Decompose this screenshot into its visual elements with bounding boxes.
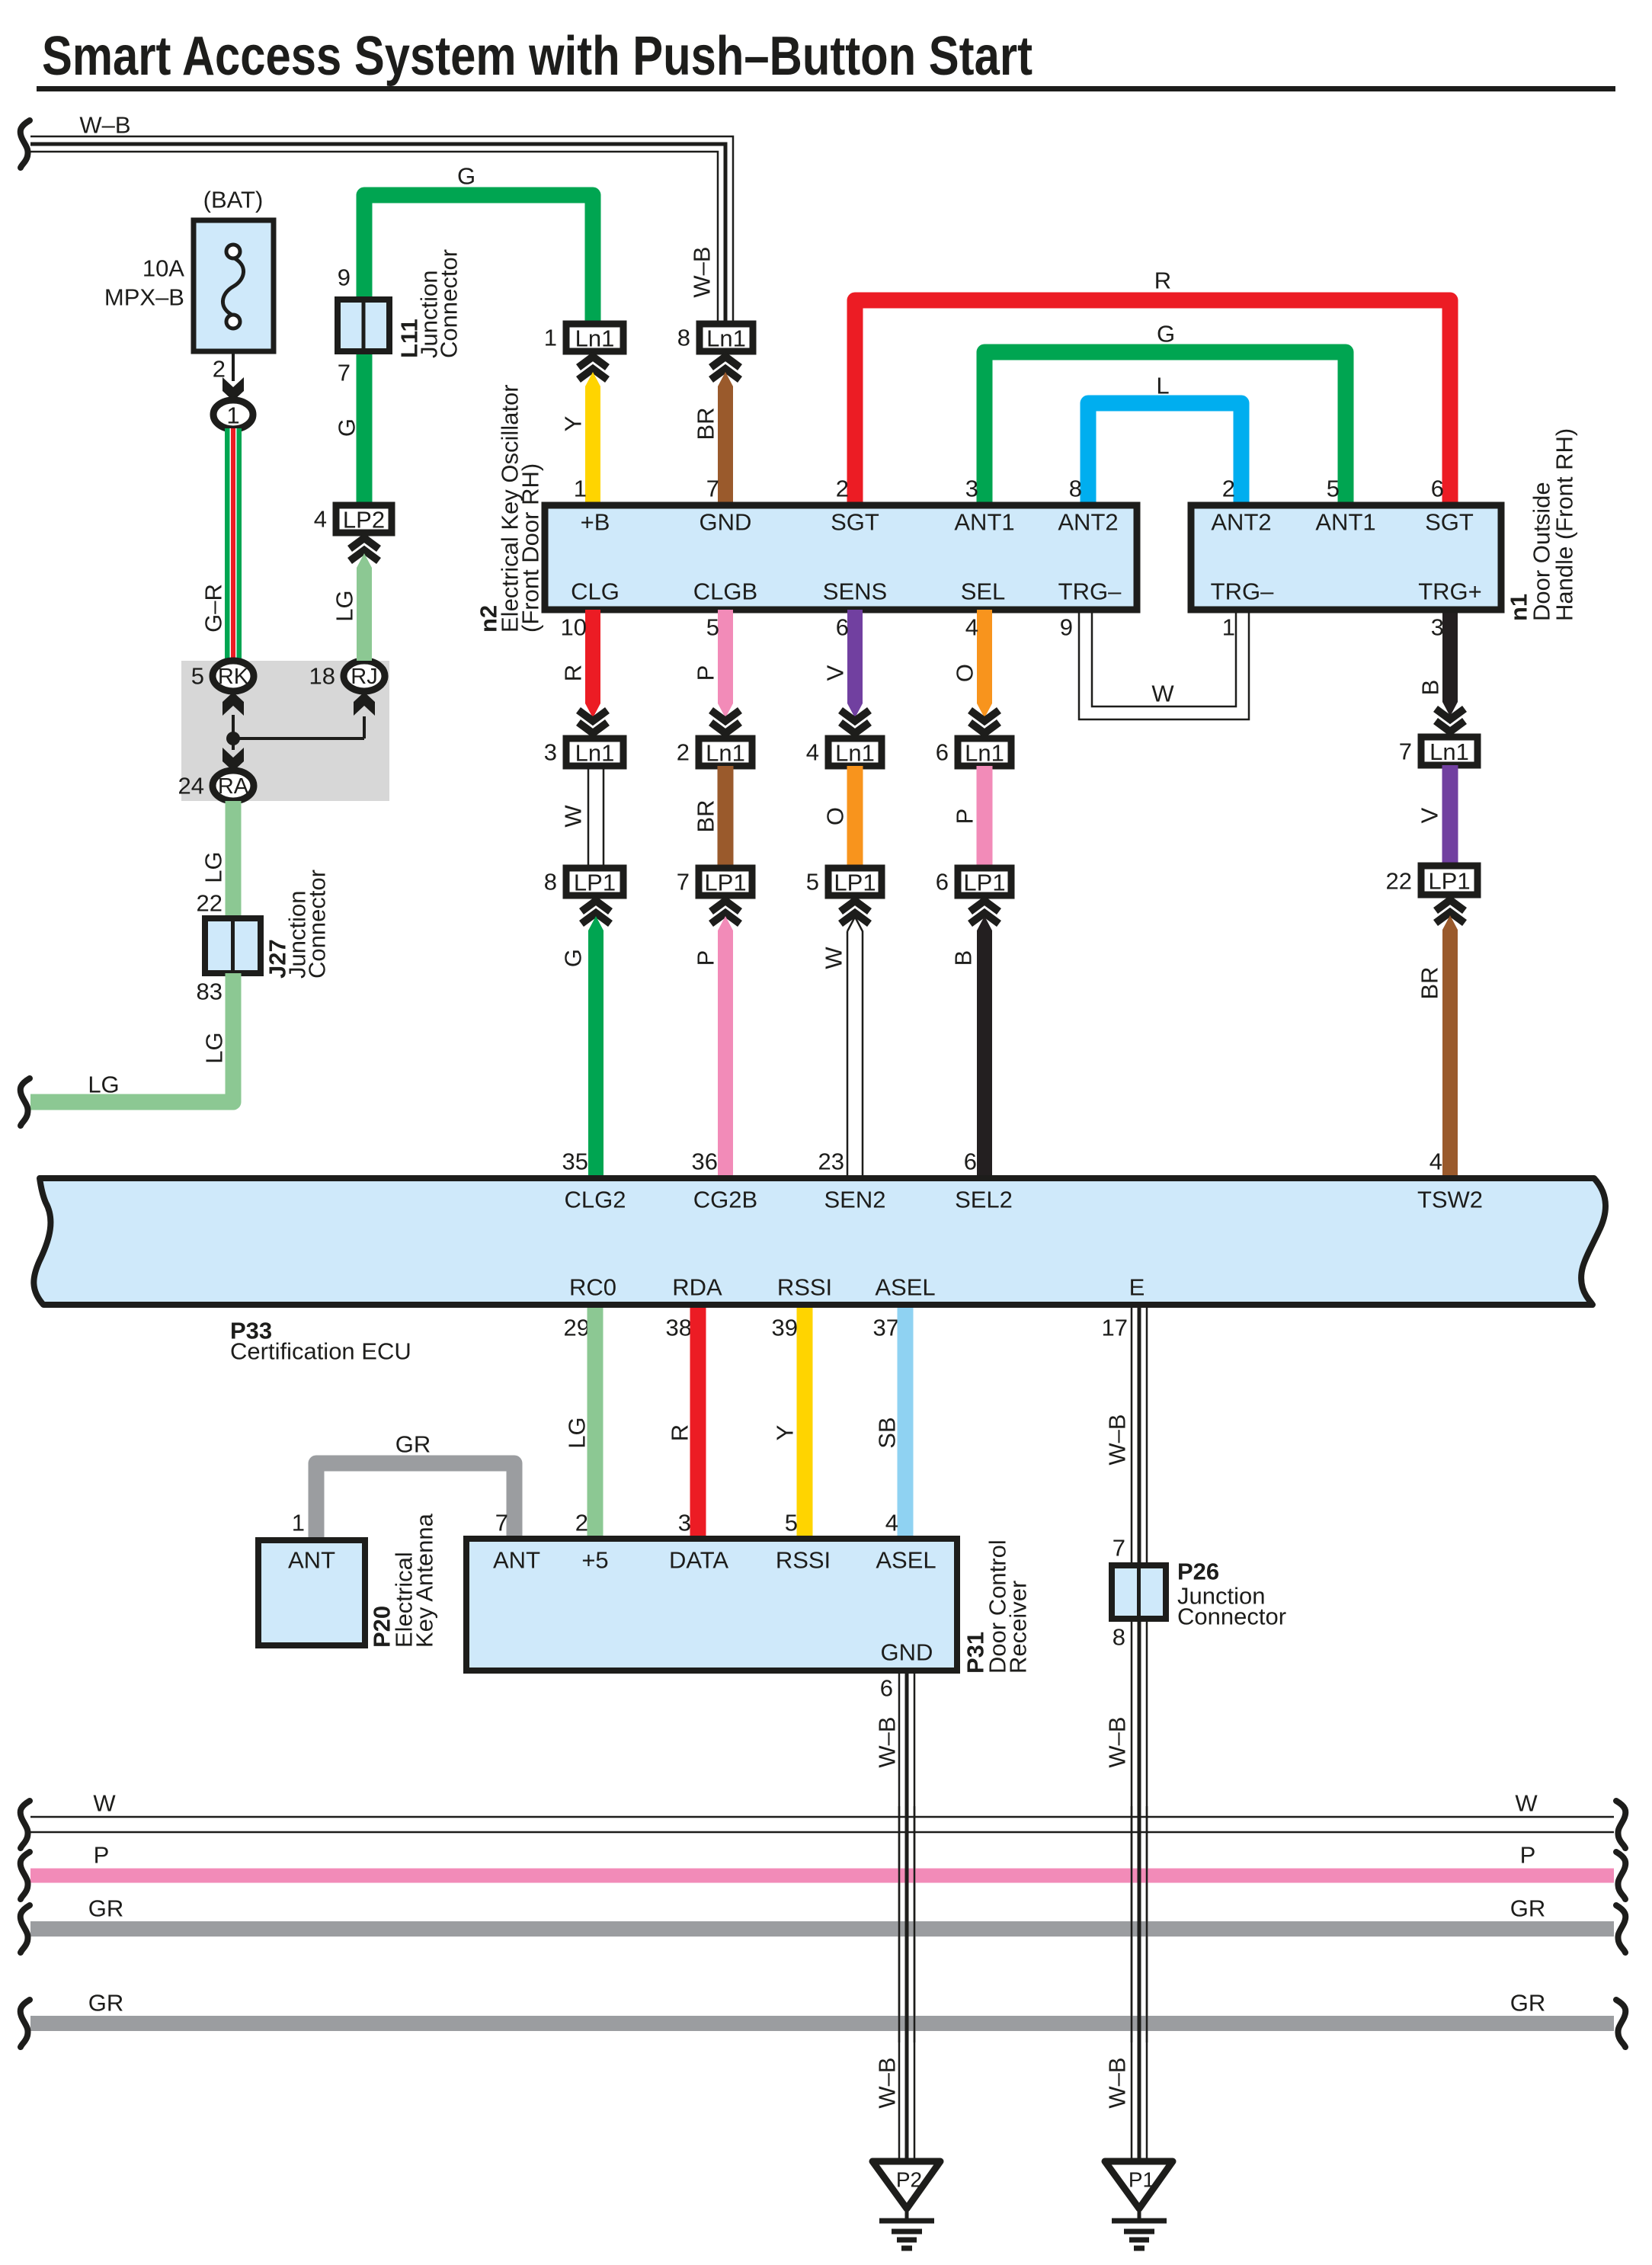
wire W-B ECU E to ground P1 [1132, 1308, 1147, 2163]
n2 top pin labels [581, 509, 1119, 536]
wire O n2 SEL down to Ln1 pin 6 [977, 610, 992, 718]
ground P1 [1105, 2161, 1173, 2248]
svg-text:5: 5 [191, 663, 204, 690]
arrow into RA [223, 748, 244, 771]
svg-text:RSSI: RSSI [777, 1274, 832, 1301]
wire R ECU RDA to P31 DATA [690, 1308, 706, 1539]
svg-text:LP2: LP2 [343, 507, 385, 533]
svg-text:LP1: LP1 [1428, 868, 1470, 895]
svg-text:L: L [1156, 373, 1169, 399]
svg-text:W–B: W–B [1104, 1716, 1131, 1767]
svg-text:36: 36 [692, 1149, 718, 1175]
svg-text:O: O [952, 664, 978, 682]
svg-text:SGT: SGT [1425, 509, 1474, 536]
wire L loop n2 ANT2 to n1 ANT2 [1088, 403, 1241, 505]
svg-text:W–B: W–B [874, 2057, 901, 2108]
svg-text:4: 4 [1429, 1149, 1442, 1175]
ECU box n2 Electrical Key Oscillator (Front Door RH) [545, 505, 1137, 610]
svg-text:(BAT): (BAT) [203, 187, 264, 213]
svg-text:Ln1: Ln1 [835, 740, 875, 767]
wire G from junction connector L11 loop to Ln1 pin 1 [364, 195, 593, 505]
wire R loop n2 SGT to n1 SGT [855, 300, 1450, 505]
wire P LP1-7 to ECU CG2B [711, 901, 740, 1176]
svg-text:LG: LG [564, 1417, 591, 1448]
svg-text:ANT: ANT [493, 1547, 540, 1574]
svg-text:Y: Y [772, 1425, 799, 1441]
svg-text:V: V [822, 665, 849, 681]
svg-text:G–R: G–R [200, 584, 227, 633]
svg-text:5: 5 [785, 1510, 798, 1536]
svg-text:ASEL: ASEL [876, 1547, 936, 1574]
bus wire GR horizontal 1 [30, 1921, 1614, 1937]
svg-text:LG: LG [201, 1032, 228, 1063]
svg-text:GND: GND [881, 1639, 933, 1666]
svg-text:W: W [560, 805, 587, 828]
wire W Ln1-3 to LP1-8 [588, 766, 603, 868]
ground P2 [872, 2161, 940, 2248]
svg-text:SENS: SENS [823, 578, 887, 605]
box P31 Door Control Receiver [466, 1539, 957, 1671]
svg-text:2: 2 [575, 1510, 588, 1536]
svg-text:29: 29 [564, 1315, 590, 1341]
svg-text:MPX–B: MPX–B [104, 284, 184, 311]
node RA [213, 770, 254, 801]
ECU bottom pin numbers [564, 1315, 1128, 1341]
svg-text:Y: Y [560, 416, 587, 432]
wire W-B from left break to Ln1 pin 8 [30, 136, 733, 324]
svg-text:9: 9 [1060, 614, 1073, 641]
svg-text:P: P [1520, 1842, 1536, 1869]
svg-text:BR: BR [693, 407, 719, 440]
wire W-B E over buses [1132, 1806, 1147, 2042]
svg-text:W–B: W–B [689, 246, 716, 297]
connector LP1 pin 5 [828, 868, 882, 896]
internal wiring RK RJ RA [233, 715, 364, 750]
break squiggles GR bus 2 [21, 2000, 30, 2047]
ECU box P33 Certification ECU [34, 1178, 1606, 1305]
svg-text:V: V [1417, 807, 1443, 823]
svg-text:W: W [821, 947, 847, 969]
svg-text:CG2B: CG2B [693, 1187, 757, 1213]
svg-text:ANT2: ANT2 [1211, 509, 1271, 536]
svg-text:17: 17 [1102, 1315, 1128, 1341]
bus wire P horizontal [30, 1869, 1614, 1883]
wire R n2 CLG down to Ln1 pin 3 [585, 610, 600, 718]
svg-text:Connector: Connector [1177, 1603, 1286, 1630]
svg-text:Handle (Front RH): Handle (Front RH) [1551, 428, 1578, 621]
svg-text:7: 7 [677, 869, 690, 895]
svg-text:GR: GR [88, 1990, 124, 2017]
svg-text:Key Antenna: Key Antenna [411, 1513, 438, 1648]
svg-text:Ln1: Ln1 [965, 740, 1004, 767]
wire LG ECU RC0 to P31 +5 [587, 1308, 603, 1539]
relay block gray box [181, 661, 389, 801]
svg-text:Ln1: Ln1 [706, 740, 745, 767]
svg-text:Receiver: Receiver [1005, 1581, 1032, 1674]
svg-text:TSW2: TSW2 [1417, 1187, 1483, 1213]
svg-text:3: 3 [678, 1510, 691, 1536]
svg-text:GR: GR [88, 1895, 124, 1922]
wire Y chevron below Ln1-1 to n2 +B [578, 357, 607, 505]
arrow into RK [223, 692, 244, 716]
connector Ln1 pin 6 (row 2) [958, 738, 1011, 767]
wire W-B P31 GND to ground P2 [899, 1671, 914, 2163]
connector Ln1 pin 3 (row 2) [566, 738, 623, 767]
svg-text:2: 2 [677, 739, 690, 766]
svg-text:LG: LG [331, 590, 358, 621]
svg-text:23: 23 [818, 1149, 844, 1175]
svg-text:LG: LG [88, 1072, 119, 1098]
svg-text:83: 83 [197, 979, 223, 1005]
break squiggles P bus [21, 1852, 30, 1899]
svg-text:4: 4 [965, 614, 978, 641]
svg-text:6: 6 [936, 869, 949, 895]
svg-text:E: E [1129, 1274, 1145, 1301]
svg-text:R: R [560, 665, 587, 681]
svg-text:SEN2: SEN2 [824, 1187, 886, 1213]
junction connector L11 [338, 300, 389, 351]
svg-text:9: 9 [338, 264, 351, 291]
svg-text:GR: GR [395, 1431, 431, 1458]
svg-text:LP1: LP1 [574, 870, 616, 896]
svg-text:BR: BR [693, 799, 719, 832]
svg-text:TRG–: TRG– [1058, 578, 1122, 605]
wire LG RA down to J27 [226, 801, 242, 918]
svg-text:ANT1: ANT1 [954, 509, 1014, 536]
svg-text:7: 7 [338, 360, 351, 386]
svg-text:SB: SB [874, 1417, 901, 1448]
svg-text:Connector: Connector [436, 249, 463, 358]
svg-text:5: 5 [706, 614, 719, 641]
svg-text:CLG: CLG [571, 578, 619, 605]
wire GR loop P20 ANT to P31 ANT [316, 1463, 514, 1540]
svg-text:2: 2 [836, 476, 849, 502]
svg-text:SGT: SGT [831, 509, 879, 536]
svg-text:W: W [93, 1790, 116, 1817]
svg-text:39: 39 [772, 1315, 798, 1341]
svg-text:4: 4 [806, 739, 819, 766]
svg-text:P26: P26 [1177, 1559, 1219, 1585]
svg-text:4: 4 [885, 1510, 898, 1536]
svg-text:G: G [560, 949, 587, 967]
wire G LP1-8 to ECU CLG2 [581, 901, 610, 1176]
svg-text:6: 6 [936, 739, 949, 766]
svg-text:GR: GR [1510, 1895, 1546, 1922]
svg-text:LG: LG [200, 851, 227, 883]
svg-text:G: G [334, 418, 360, 437]
wire G loop n2 ANT1 to n1 ANT1 [984, 352, 1346, 505]
wire BR chevron below Ln1-8 to n2 GND [711, 357, 740, 505]
ECU top pin labels [565, 1187, 1484, 1213]
svg-text:LP1: LP1 [963, 870, 1005, 896]
wire LG RJ up to LP2 [350, 538, 379, 661]
svg-text:22: 22 [1386, 868, 1412, 895]
svg-text:7: 7 [1113, 1535, 1125, 1562]
connector LP2 pin 4 [336, 505, 392, 533]
svg-text:ANT1: ANT1 [1315, 509, 1375, 536]
svg-text:RSSI: RSSI [776, 1547, 831, 1574]
svg-text:22: 22 [197, 890, 223, 917]
wire BR Ln1-2 to LP1-7 [718, 766, 734, 868]
junction connector P26 [1112, 1565, 1166, 1619]
svg-text:SEL: SEL [961, 578, 1006, 605]
wire B LP1-6 to ECU SEL2 [970, 901, 999, 1176]
svg-text:CLGB: CLGB [693, 578, 757, 605]
title underline [37, 86, 1615, 91]
break squiggle LG left [21, 1078, 30, 1126]
svg-text:18: 18 [309, 663, 335, 690]
break squiggles GR bus 1 [21, 1905, 30, 1953]
svg-text:G: G [1157, 321, 1175, 348]
svg-text:(Front Door RH): (Front Door RH) [517, 463, 544, 633]
svg-text:LP1: LP1 [834, 870, 876, 896]
svg-text:2: 2 [213, 356, 226, 383]
connector LP1 pin 7 [699, 868, 752, 896]
svg-text:RK: RK [218, 665, 249, 689]
box n1 Door Outside Handle (Front RH) [1191, 505, 1501, 610]
svg-text:ANT2: ANT2 [1058, 509, 1118, 536]
svg-text:P: P [94, 1842, 110, 1869]
svg-text:3: 3 [965, 476, 978, 502]
svg-text:SEL2: SEL2 [955, 1187, 1013, 1213]
ECU bottom pin labels [569, 1274, 1145, 1301]
arrow into RJ [354, 692, 375, 716]
svg-text:8: 8 [544, 869, 557, 895]
svg-text:Ln1: Ln1 [575, 325, 615, 352]
connector Ln1 pin 4 (row 2) [828, 738, 882, 767]
svg-text:ANT: ANT [288, 1547, 335, 1574]
svg-text:B: B [1417, 680, 1444, 696]
node RK [213, 661, 254, 691]
connector Ln1 pin 1 (row 1) [566, 324, 623, 352]
svg-text:TRG+: TRG+ [1418, 578, 1482, 605]
fuse 10A MPX-B (BAT) [194, 220, 274, 351]
svg-text:7: 7 [1399, 738, 1412, 765]
wire SB ECU ASEL to P31 ASEL [898, 1308, 914, 1539]
svg-text:2: 2 [1222, 476, 1235, 502]
n1 bottom pin labels [1211, 578, 1482, 605]
svg-text:3: 3 [544, 739, 557, 766]
svg-text:Ln1: Ln1 [575, 740, 615, 767]
svg-text:5: 5 [1327, 476, 1340, 502]
wire LG J27 down and left to break [30, 973, 233, 1102]
svg-text:GND: GND [700, 509, 752, 536]
bus wire GR horizontal 2 [30, 2016, 1614, 2031]
n1 top pin labels [1211, 509, 1474, 536]
node 1 [213, 400, 253, 429]
svg-text:P2: P2 [896, 2168, 922, 2192]
n2 bottom pin labels [571, 578, 1122, 605]
svg-text:DATA: DATA [669, 1547, 728, 1574]
junction connector J27 [205, 918, 261, 973]
svg-text:38: 38 [666, 1315, 692, 1341]
svg-text:Certification ECU: Certification ECU [230, 1338, 411, 1365]
wire B n1 TRG+ down to Ln1 pin 7 [1442, 610, 1458, 716]
svg-text:4: 4 [314, 506, 327, 533]
svg-text:3: 3 [1431, 614, 1444, 641]
svg-text:P1: P1 [1129, 2168, 1154, 2192]
wire Y ECU RSSI to P31 RSSI [797, 1308, 813, 1539]
svg-text:8: 8 [1069, 476, 1082, 502]
arrow into node 1 [223, 377, 244, 401]
svg-text:B: B [950, 950, 977, 966]
svg-text:W–B: W–B [79, 112, 130, 139]
svg-text:10A: 10A [142, 255, 184, 282]
svg-text:O: O [822, 807, 849, 825]
svg-text:RDA: RDA [672, 1274, 722, 1301]
wire G-R node 1 to RK [225, 428, 242, 661]
svg-text:Ln1: Ln1 [1429, 738, 1469, 765]
connector Ln1 pin 2 (row 2) [699, 738, 752, 767]
svg-text:+5: +5 [581, 1547, 608, 1574]
svg-text:1: 1 [574, 476, 587, 502]
svg-text:Connector: Connector [304, 870, 331, 979]
wire W loop n2 TRG- to n1 TRG- [1079, 610, 1249, 719]
wire fuse to node 1 [232, 351, 235, 381]
svg-text:BR: BR [1417, 966, 1443, 999]
svg-text:RJ: RJ [351, 665, 377, 689]
svg-text:GR: GR [1510, 1990, 1546, 2017]
svg-text:1: 1 [1222, 614, 1235, 641]
svg-text:W–B: W–B [1104, 2057, 1131, 2108]
svg-text:R: R [1154, 268, 1171, 294]
svg-text:6: 6 [964, 1149, 977, 1175]
svg-text:7: 7 [495, 1510, 508, 1536]
wire BR LP1-22 to ECU TSW2 [1436, 900, 1465, 1176]
wire V n2 SENS down to Ln1 pin 4 [847, 610, 863, 718]
wire V Ln1-7 to LP1-22 (right) [1442, 765, 1458, 866]
svg-text:5: 5 [806, 869, 819, 895]
bus wire W horizontal [30, 1817, 1614, 1832]
connector LP1 pin 6 [958, 868, 1011, 896]
svg-text:W: W [1151, 681, 1174, 707]
svg-text:R: R [667, 1424, 693, 1441]
svg-text:ASEL: ASEL [875, 1274, 935, 1301]
svg-text:37: 37 [873, 1315, 899, 1341]
wire O Ln1-4 to LP1-5 [847, 766, 863, 868]
break squiggles W bus [21, 1801, 30, 1848]
wire P Ln1-6 to LP1-6 [977, 766, 993, 868]
svg-text:P: P [693, 665, 719, 681]
svg-text:1: 1 [544, 325, 557, 351]
svg-text:6: 6 [836, 614, 849, 641]
break squiggle top-left [21, 120, 30, 168]
svg-text:8: 8 [677, 325, 690, 351]
connector Ln1 pin 7 (right) [1421, 737, 1478, 765]
svg-text:G: G [457, 163, 475, 190]
svg-text:10: 10 [561, 614, 587, 641]
connector LP1 pin 8 [566, 868, 623, 896]
svg-text:W–B: W–B [1104, 1414, 1131, 1465]
svg-text:1: 1 [292, 1510, 305, 1536]
box P20 Electrical Key Antenna [258, 1540, 365, 1645]
connector Ln1 pin 8 (row 1) [700, 324, 753, 352]
svg-text:Ln1: Ln1 [706, 325, 746, 352]
svg-text:W: W [1515, 1790, 1538, 1817]
svg-text:8: 8 [1113, 1624, 1125, 1651]
svg-text:6: 6 [880, 1675, 893, 1702]
svg-text:LP1: LP1 [704, 870, 746, 896]
svg-text:+B: +B [581, 509, 610, 536]
svg-text:Smart Access System with Push–: Smart Access System with Push–Button Sta… [42, 26, 1032, 87]
junction dot [226, 732, 240, 745]
svg-text:24: 24 [178, 773, 204, 799]
connector LP1 pin 22 (right) [1421, 866, 1478, 895]
node RJ [344, 661, 385, 691]
svg-text:W–B: W–B [874, 1716, 901, 1767]
svg-text:P: P [693, 950, 719, 966]
svg-text:TRG–: TRG– [1211, 578, 1274, 605]
svg-text:35: 35 [562, 1149, 588, 1175]
svg-text:RA: RA [218, 774, 249, 799]
svg-text:RC0: RC0 [569, 1274, 616, 1301]
wire W-B GND over buses [899, 1806, 914, 2042]
svg-text:CLG2: CLG2 [565, 1187, 626, 1213]
svg-text:1: 1 [226, 402, 239, 429]
wire P n2 CLGB down to Ln1 pin 2 [718, 610, 733, 718]
svg-text:6: 6 [1431, 476, 1444, 502]
svg-text:P: P [952, 809, 978, 825]
svg-text:7: 7 [706, 476, 719, 502]
wire W LP1-5 to ECU SEN2 [847, 917, 863, 1176]
